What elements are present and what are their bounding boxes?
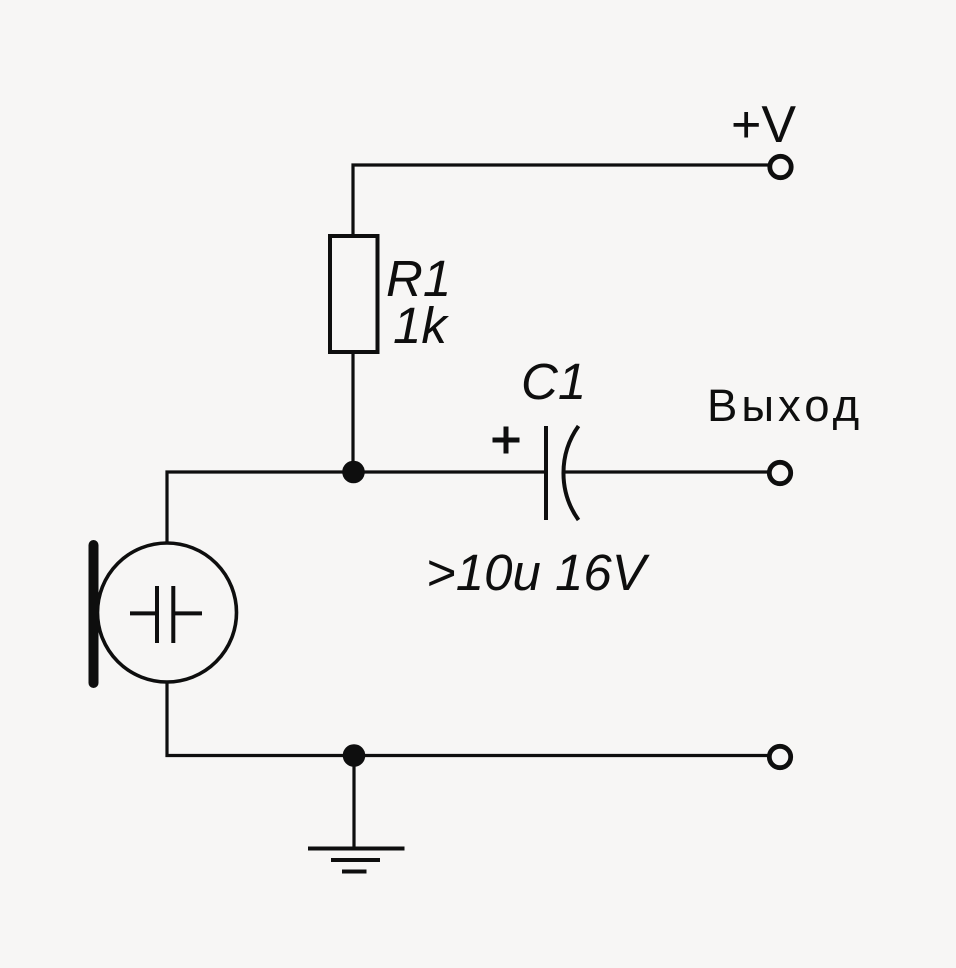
microphone BM1 body [98,543,237,682]
terminal +V (open circle) [770,156,791,177]
node junction dot (bottom) [343,744,366,767]
svg-text:C1: C1 [521,353,586,410]
ground symbol [308,847,405,851]
capacitor C1 left plate [544,426,548,520]
svg-text:>10u 16V: >10u 16V [426,544,650,601]
microphone membrane bar [89,545,99,683]
terminal output (open circle) [769,462,790,483]
svg-text:+V: +V [731,96,796,154]
node junction dot (mid) [342,461,365,484]
polarity + mark [493,427,520,454]
terminal common (open circle) [769,746,790,767]
microphone internal capacitor [130,586,202,643]
svg-text:1k: 1k [393,297,449,354]
wire: resistor bottom to junction [351,352,354,472]
capacitor C1 curved plate [563,426,578,520]
svg-text:Выход: Выход [707,380,863,431]
wire: mic bottom to ground rail and output common [167,682,768,756]
wire: mic top up and right to capacitor [167,472,546,543]
resistor R1 [330,236,378,352]
wire: capacitor to output terminal [563,470,768,473]
wire: ground stem [352,756,355,849]
wire: +V rail from resistor top to terminal [353,165,768,236]
